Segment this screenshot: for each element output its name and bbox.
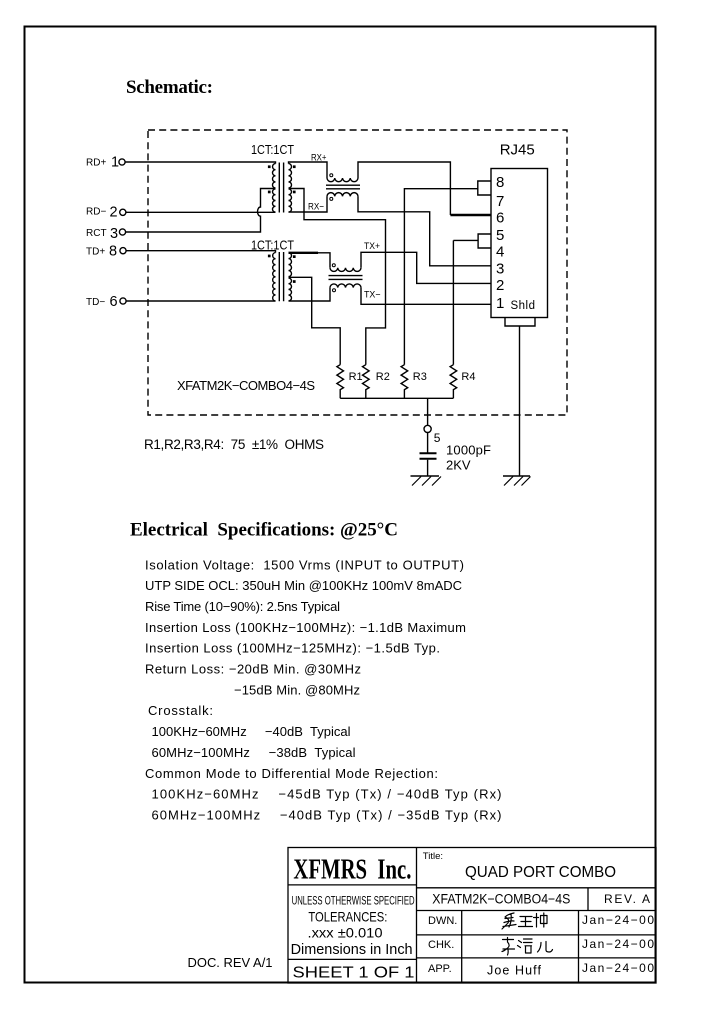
svg-text:R4: R4 xyxy=(461,371,475,383)
svg-text:Joe Huff: Joe Huff xyxy=(487,964,542,978)
svg-text:6: 6 xyxy=(110,294,118,310)
svg-text:Schematic:: Schematic: xyxy=(126,77,213,98)
svg-text:100KHz−60MHz −45dB Typ (Tx): 100KHz−60MHz −45dB Typ (Tx) / −40dB Typ … xyxy=(152,787,502,802)
svg-text:XFMRS Inc.: XFMRS Inc. xyxy=(293,855,411,886)
svg-text:RD+: RD+ xyxy=(86,157,106,168)
svg-text:5: 5 xyxy=(434,431,441,445)
svg-text:8: 8 xyxy=(109,243,117,259)
svg-text:Rise Time (10−90%): 2.5ns Typi: Rise Time (10−90%): 2.5ns Typical xyxy=(145,599,340,614)
svg-text:6: 6 xyxy=(496,209,504,226)
svg-text:1000pF: 1000pF xyxy=(446,443,491,458)
svg-text:TD−: TD− xyxy=(86,297,105,308)
svg-text:2KV: 2KV xyxy=(446,458,471,473)
svg-text:.xxx ±0.010: .xxx ±0.010 xyxy=(308,925,383,941)
svg-text:TOLERANCES:: TOLERANCES: xyxy=(308,908,387,924)
svg-text:1CT:1CT: 1CT:1CT xyxy=(251,143,294,157)
svg-text:60MHz−100MHz −40dB Typ (Tx): 60MHz−100MHz −40dB Typ (Tx) / −35dB Typ … xyxy=(152,808,502,823)
svg-text:Jan−24−00: Jan−24−00 xyxy=(582,937,654,951)
svg-text:Insertion Loss (100MHz−125MHz): Insertion Loss (100MHz−125MHz): −1.5dB T… xyxy=(145,641,440,656)
svg-text:60MHz−100MHz −38dB Typica: 60MHz−100MHz −38dB Typical xyxy=(152,745,356,760)
svg-text:CHK.: CHK. xyxy=(428,939,454,951)
svg-text:XFATM2K−COMBO4−4S: XFATM2K−COMBO4−4S xyxy=(432,892,570,907)
svg-text:R1,R2,R3,R4: 75 ±1% OHMS: R1,R2,R3,R4: 75 ±1% OHMS xyxy=(144,437,324,452)
svg-text:2: 2 xyxy=(110,205,118,221)
svg-text:RX−: RX− xyxy=(308,202,324,213)
svg-text:REV. A: REV. A xyxy=(604,892,650,906)
svg-text:Return Loss: −20dB Min. @30MHz: Return Loss: −20dB Min. @30MHz xyxy=(145,662,361,677)
svg-text:7: 7 xyxy=(496,193,504,210)
svg-text:UNLESS OTHERWISE SPECIFIED: UNLESS OTHERWISE SPECIFIED xyxy=(292,894,415,908)
svg-text:TD+: TD+ xyxy=(86,246,105,257)
svg-text:DOC. REV A/1: DOC. REV A/1 xyxy=(188,955,273,970)
svg-text:R2: R2 xyxy=(376,371,390,383)
svg-text:Insertion Loss (100KHz−100MHz): Insertion Loss (100KHz−100MHz): −1.1dB M… xyxy=(145,620,466,635)
svg-text:8: 8 xyxy=(496,174,504,191)
svg-text:APP.: APP. xyxy=(428,963,452,975)
svg-text:Dimensions in Inch: Dimensions in Inch xyxy=(291,942,413,958)
svg-text:DWN.: DWN. xyxy=(428,915,457,927)
svg-text:1: 1 xyxy=(496,295,504,312)
svg-text:QUAD PORT COMBO: QUAD PORT COMBO xyxy=(465,864,616,881)
svg-text:4: 4 xyxy=(496,244,504,261)
svg-text:1CT:1CT: 1CT:1CT xyxy=(251,239,294,253)
svg-text:TX−: TX− xyxy=(364,290,381,301)
svg-text:Shld: Shld xyxy=(511,300,536,312)
svg-text:TX+: TX+ xyxy=(364,241,380,252)
svg-text:RX+: RX+ xyxy=(311,153,327,164)
svg-text:UTP SIDE OCL: 350uH Min @100KH: UTP SIDE OCL: 350uH Min @100KHz 100mV 8m… xyxy=(145,578,462,593)
svg-text:3: 3 xyxy=(496,260,504,277)
svg-text:SHEET 1 OF 1: SHEET 1 OF 1 xyxy=(293,965,415,982)
svg-text:Title:: Title: xyxy=(423,851,443,862)
svg-text:RCT: RCT xyxy=(86,228,107,239)
svg-text:3: 3 xyxy=(110,226,118,242)
svg-text:−15dB Min. @80MHz: −15dB Min. @80MHz xyxy=(234,682,360,697)
svg-text:2: 2 xyxy=(496,277,504,294)
svg-text:Common Mode to Differential Mo: Common Mode to Differential Mode Rejecti… xyxy=(145,766,438,781)
svg-text:100KHz−60MHz −40dB Typica: 100KHz−60MHz −40dB Typical xyxy=(152,724,351,739)
svg-text:Crosstalk:: Crosstalk: xyxy=(148,703,213,718)
svg-text:R1: R1 xyxy=(349,371,363,383)
svg-text:Jan−24−00: Jan−24−00 xyxy=(582,961,654,975)
svg-text:RJ45: RJ45 xyxy=(500,141,535,158)
svg-text:XFATM2K−COMBO4−4S: XFATM2K−COMBO4−4S xyxy=(177,378,315,393)
svg-text:5: 5 xyxy=(496,227,504,244)
svg-text:R3: R3 xyxy=(413,371,427,383)
svg-text:Isolation Voltage: 1500 Vrms: Isolation Voltage: 1500 Vrms (INPUT to O… xyxy=(145,557,464,572)
svg-text:RD−: RD− xyxy=(86,206,106,217)
svg-text:Electrical Specifications: @2: Electrical Specifications: @25°C xyxy=(130,520,398,541)
svg-text:Jan−24−00: Jan−24−00 xyxy=(582,913,654,927)
svg-text:1: 1 xyxy=(111,155,119,171)
